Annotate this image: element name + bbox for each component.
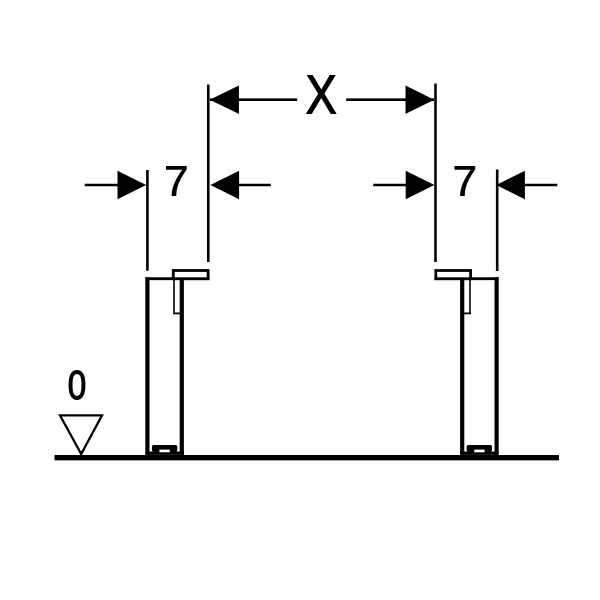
right foot xyxy=(467,445,492,452)
left 7 label xyxy=(166,166,186,195)
right 7 extension line xyxy=(496,170,499,272)
left rail bracket xyxy=(173,271,208,279)
right inner channel xyxy=(463,280,471,314)
right 7 right arrow xyxy=(525,184,557,187)
left post outline xyxy=(145,277,209,455)
dimension X extension line right xyxy=(434,84,437,263)
dimension X right arrow xyxy=(406,86,435,114)
left 7 right arrow xyxy=(238,184,271,187)
right 7 left arrow xyxy=(373,184,406,187)
left inner channel xyxy=(173,280,181,314)
datum triangle xyxy=(60,415,102,454)
right post outline xyxy=(434,277,498,455)
left 7 left arrow xyxy=(85,184,118,187)
dimension X line segments xyxy=(210,98,297,101)
right 7 label xyxy=(455,166,475,195)
dimension X label xyxy=(307,76,336,114)
dimension X extension line left xyxy=(207,85,210,263)
datum 0 label xyxy=(69,371,85,400)
left foot xyxy=(152,445,177,452)
right rail bracket xyxy=(436,271,471,279)
left 7 extension line xyxy=(146,170,149,271)
dimension X left arrow xyxy=(210,86,239,114)
floor line xyxy=(55,455,560,460)
